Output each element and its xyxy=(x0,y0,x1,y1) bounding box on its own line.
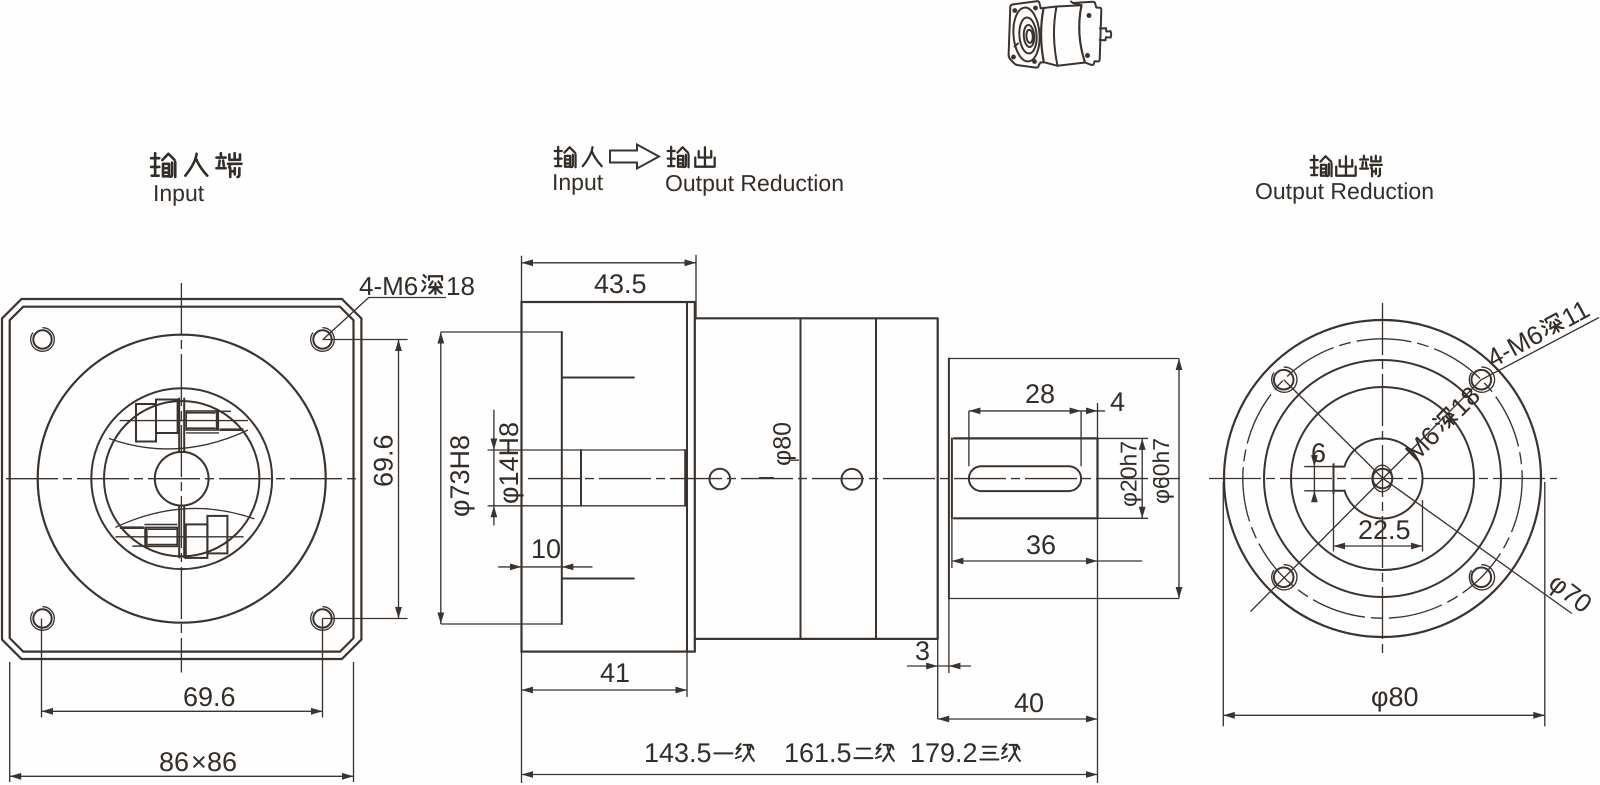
svg-text:φ20h7: φ20h7 xyxy=(1116,441,1142,507)
svg-text:φ14H8: φ14H8 xyxy=(494,422,524,504)
svg-text:18: 18 xyxy=(446,271,475,301)
svg-text:φ80: φ80 xyxy=(1371,682,1419,712)
svg-text:φ73H8: φ73H8 xyxy=(445,435,475,517)
svg-text:69.6: 69.6 xyxy=(369,434,399,487)
svg-text:φ60h7: φ60h7 xyxy=(1148,438,1174,504)
svg-text:69.6: 69.6 xyxy=(183,682,236,712)
svg-text:43.5: 43.5 xyxy=(594,269,647,299)
svg-text:4-M6: 4-M6 xyxy=(359,271,418,301)
svg-text:143.5: 143.5 xyxy=(644,738,712,768)
svg-text:Output Reduction: Output Reduction xyxy=(1255,178,1434,204)
svg-text:4: 4 xyxy=(1110,387,1125,417)
svg-text:Input: Input xyxy=(552,169,604,195)
svg-text:161.5: 161.5 xyxy=(784,738,852,768)
svg-text:22.5: 22.5 xyxy=(1358,515,1411,545)
svg-text:Output Reduction: Output Reduction xyxy=(665,170,844,196)
svg-text:41: 41 xyxy=(600,658,630,688)
svg-text:28: 28 xyxy=(1025,379,1055,409)
svg-text:86: 86 xyxy=(159,747,189,777)
svg-text:10: 10 xyxy=(531,534,561,564)
svg-text:86: 86 xyxy=(207,747,237,777)
svg-text:6: 6 xyxy=(1311,438,1326,468)
svg-text:36: 36 xyxy=(1026,530,1056,560)
svg-text:Input: Input xyxy=(153,180,205,206)
svg-text:3: 3 xyxy=(915,636,930,666)
svg-text:40: 40 xyxy=(1014,688,1044,718)
svg-text:φ80: φ80 xyxy=(769,422,797,466)
svg-text:×: × xyxy=(191,747,207,777)
svg-text:179.2: 179.2 xyxy=(910,738,978,768)
